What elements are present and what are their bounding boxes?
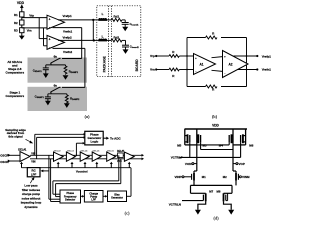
svg-text:VIP: VIP	[31, 152, 35, 155]
resistor Rd1	[107, 14, 126, 21]
dummy cell block	[117, 151, 125, 163]
svg-text:Vcontrol: Vcontrol	[76, 170, 88, 174]
RC LPF box	[27, 168, 40, 177]
svg-text:-: -	[49, 25, 50, 29]
wire tee box2	[48, 93, 67, 95]
svg-text:LPF: LPF	[31, 172, 37, 176]
svg-text:VIN: VIN	[31, 160, 35, 163]
svg-text:VOP: VOP	[239, 162, 245, 166]
svg-text:Vrefp1: Vrefp1	[262, 54, 272, 58]
svg-text:Vrn: Vrn	[27, 29, 32, 33]
wires A1 to A2	[212, 57, 223, 72]
svg-text:Comparators: Comparators	[5, 71, 24, 75]
common source wire	[191, 181, 237, 194]
svg-text:(c): (c)	[125, 211, 130, 216]
transistor M8	[217, 190, 228, 202]
transistor M1	[174, 171, 206, 181]
svg-text:-: -	[49, 45, 50, 49]
delay cell DEL#1	[18, 147, 30, 161]
svg-text:Comparators: Comparators	[5, 94, 24, 98]
wire tap to phase logic	[76, 142, 85, 156]
wire Vrefp2	[58, 35, 99, 40]
svg-text:DEL#2: DEL#2	[54, 150, 62, 152]
svg-text:(b): (b)	[212, 114, 218, 119]
resistor RDAMP1	[63, 65, 79, 80]
capacitor Cboard2	[122, 40, 140, 54]
svg-text:DEL#5: DEL#5	[93, 150, 101, 152]
svg-text:OSCN: OSCN	[0, 160, 8, 164]
svg-text:(d): (d)	[213, 216, 219, 221]
svg-text:VDD: VDD	[212, 123, 219, 127]
svg-text:L: L	[102, 34, 104, 38]
input Vrp	[150, 54, 169, 58]
svg-text:BOARD: BOARD	[135, 59, 139, 72]
svg-text:+: +	[224, 54, 226, 58]
svg-text:R1: R1	[14, 13, 18, 17]
svg-text:To ADC: To ADC	[110, 137, 121, 141]
chain wires	[30, 155, 142, 159]
ground M8	[224, 201, 235, 214]
resistor R3	[14, 28, 24, 33]
Vcontrol rail	[22, 168, 132, 197]
svg-text:M4: M4	[219, 143, 223, 147]
transistor M5	[177, 129, 197, 157]
svg-text:-: -	[224, 71, 225, 75]
switch phi in box2	[50, 85, 60, 94]
VDD rail	[185, 128, 248, 130]
delay cell 6	[107, 152, 116, 161]
phase frequency detector box	[60, 190, 81, 203]
node Vrp wire	[22, 14, 47, 18]
svg-text:-: -	[195, 70, 196, 74]
svg-text:VINP: VINP	[174, 175, 181, 179]
resistor R feedback bottom	[206, 85, 217, 92]
inductor L row1	[99, 12, 107, 21]
svg-text:A1: A1	[200, 62, 204, 66]
ground arrow of ladder	[19, 33, 25, 40]
delay cell 3	[66, 152, 75, 161]
svg-text:Vrp: Vrp	[150, 54, 155, 58]
svg-text:Detector: Detector	[65, 198, 75, 201]
svg-text:+: +	[49, 17, 51, 21]
svg-text:+: +	[195, 56, 197, 60]
svg-text:VO6: VO6	[117, 161, 122, 163]
svg-text:+: +	[49, 38, 51, 42]
capacitor Cboard1	[122, 20, 140, 31]
transistor M2	[223, 171, 250, 181]
svg-text:VON: VON	[185, 162, 192, 166]
arrow CP to bias	[103, 195, 107, 198]
resistor R2	[14, 20, 24, 25]
wire joining nodes	[92, 20, 94, 41]
delay cell 4	[80, 152, 89, 161]
svg-text:PACKAGE: PACKAGE	[103, 55, 107, 72]
VCTRLN wire	[169, 201, 204, 207]
resistor R input bottom	[169, 68, 194, 78]
svg-text:M2: M2	[223, 175, 227, 179]
op-amp A2	[223, 51, 249, 78]
node Vrn wire	[22, 28, 47, 33]
input OSCP	[0, 154, 20, 158]
input Vrn	[150, 68, 169, 72]
delay cell 7	[124, 152, 134, 161]
VDD	[17, 1, 25, 12]
resistor RDAMP2	[64, 94, 80, 108]
gray box stage2-8	[5, 58, 87, 83]
transistor M7	[203, 190, 213, 202]
svg-text:Generator: Generator	[111, 197, 123, 200]
wire Vrefn2	[53, 48, 85, 87]
bias generator box	[108, 191, 127, 202]
svg-text:Logic: Logic	[91, 140, 99, 144]
svg-text:L: L	[102, 12, 104, 16]
op-amp buffer 1	[47, 15, 65, 29]
svg-text:M7: M7	[209, 190, 213, 194]
note sampling edge	[5, 128, 33, 144]
svg-text:VINM: VINM	[242, 175, 250, 179]
delay cell 5	[92, 152, 101, 161]
capacitor CSDAC1	[33, 65, 49, 78]
svg-text:M5: M5	[177, 144, 181, 148]
feedback wires from chain	[53, 155, 121, 196]
transistor M4	[197, 129, 233, 147]
labels above delay cells	[54, 149, 115, 152]
capacitor CSAMP1	[35, 94, 51, 106]
wire Vrefn1	[53, 28, 82, 59]
svg-text:dynamics: dynamics	[24, 205, 38, 209]
wire into RC LPF	[41, 170, 49, 173]
node	[93, 39, 95, 41]
svg-text:(a): (a)	[85, 114, 90, 119]
gray box stage1	[5, 87, 87, 111]
svg-text:DEL#3: DEL#3	[67, 150, 75, 152]
node junctions	[186, 55, 247, 70]
svg-text:M1: M1	[202, 175, 206, 179]
resistor Rd2	[107, 36, 126, 42]
svg-text:M6: M6	[249, 143, 253, 147]
svg-text:DEL#4: DEL#4	[81, 149, 89, 152]
svg-text:LPF: LPF	[91, 199, 96, 202]
wire Vrefp1	[58, 14, 99, 20]
resistor R input top	[169, 50, 194, 57]
bus wires to phase logic	[35, 134, 84, 159]
switch phi in box1	[50, 56, 60, 65]
wire Vrn to buffer2	[44, 28, 48, 46]
output Vrefp1	[234, 54, 272, 58]
note low pass filter	[21, 177, 42, 209]
op-amp buffer 2	[47, 35, 65, 49]
svg-text:Vrefp1: Vrefp1	[63, 14, 73, 18]
svg-text:Vrefn1: Vrefn1	[63, 30, 73, 34]
svg-text:A2: A2	[229, 62, 233, 66]
wire	[21, 25, 23, 28]
svg-text:this signal: this signal	[8, 135, 22, 139]
inductor L row2	[99, 34, 107, 41]
svg-text:M8: M8	[217, 190, 221, 194]
resistor R1	[14, 12, 24, 17]
svg-text:Rd1: Rd1	[113, 14, 119, 18]
node VOP	[233, 142, 245, 171]
transistor M3	[197, 129, 233, 150]
wire Vrp to buffer2	[39, 18, 47, 39]
dashed package/board frame	[97, 6, 141, 77]
resistor R feedback top	[206, 31, 217, 39]
feedback rectangle wires	[187, 38, 247, 87]
svg-text:Vrefn2: Vrefn2	[63, 50, 73, 54]
svg-text:R3: R3	[14, 29, 18, 33]
delay cell 2	[54, 152, 64, 161]
svg-text:OSCP: OSCP	[0, 154, 8, 158]
wire	[21, 17, 23, 20]
svg-text:Vrefp2: Vrefp2	[63, 35, 73, 39]
svg-text:VDD: VDD	[17, 1, 25, 5]
to ADC arrow	[104, 137, 122, 141]
phase generator logic box	[85, 131, 103, 145]
feedback wires left	[49, 155, 60, 201]
control arrows	[20, 162, 131, 168]
arrow PFD to CP	[81, 195, 85, 198]
svg-text:Vrp: Vrp	[29, 14, 34, 18]
transistor M6	[233, 129, 254, 157]
svg-text:R2: R2	[14, 21, 18, 25]
svg-text:Vrn: Vrn	[150, 68, 155, 72]
output Vrefn1	[238, 68, 272, 72]
node VON	[185, 142, 197, 171]
op-amp A1	[194, 54, 216, 75]
node	[92, 19, 94, 21]
svg-text:VCTRLN: VCTRLN	[169, 202, 181, 206]
ground M7	[195, 201, 206, 214]
svg-text:Vrefn1: Vrefn1	[262, 68, 272, 72]
wire tee box1	[46, 64, 66, 66]
svg-text:Rd2: Rd2	[113, 36, 119, 40]
input OSCN	[0, 160, 20, 165]
svg-text:DEL#6: DEL#6	[107, 150, 115, 152]
VCTRLP wire	[171, 155, 241, 159]
charge pump LPF box	[84, 191, 103, 203]
